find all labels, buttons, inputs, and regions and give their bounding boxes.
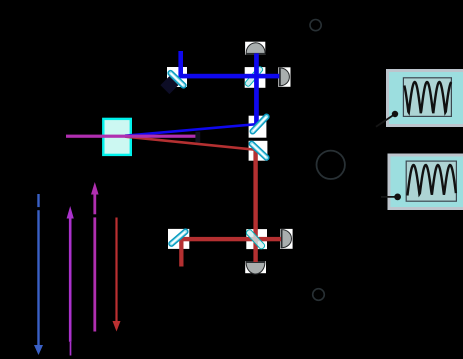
mirror M1 mount (top-left) [167,67,187,87]
beam red diagonal crystal to D2 [125,137,258,150]
mirror M1 substrate diamond [160,76,178,94]
photodiode PD4 mount (below BS2) [245,261,266,273]
photodiode PD2 dome [279,68,289,86]
beamsplitter BS2 mount [246,229,267,249]
dichroic D1 bar [249,113,270,134]
beam blue horizontal M1 to PD2 [179,74,279,79]
photodiode PD4 dome [246,262,265,274]
dichroic D2 mount [249,141,268,161]
beam dump [195,132,200,143]
beam red horizontal M2 to PD3 [180,237,281,241]
mirror M2 mount (bottom-left) [168,229,189,249]
mirror M2 bar [168,228,189,247]
beam red vertical below M2 [179,240,183,267]
photodiode PD2 mount (right of BS1) [278,67,290,87]
photodiode PD3 mount (right of BS2) [280,229,293,249]
legend arrow blue (down) [34,194,43,355]
dichroic D2 bar [248,140,269,161]
legend arrow magenta (up) [91,182,99,332]
legend arrow purple (up) [67,206,74,356]
beam blue laser vertical (top-left) [178,51,183,77]
oscilloscope 1 (top right) [376,71,463,127]
photodiode PD3 dome [281,230,291,248]
photodiode PD1 mount (above BS1) [245,42,265,55]
legend arrow red (down) [113,218,121,332]
circle omega small bottom [313,289,325,301]
beamsplitter BS1 mount [245,67,266,88]
beam blue vertical PD1-BS1-D1 [254,53,259,124]
beamsplitter BS1 plate (under beams) [244,66,263,87]
circle omega large middle [317,151,345,179]
photodiode PD1 dome [246,43,265,54]
mirror M1 coated bar [167,70,187,89]
beam magenta pump [66,135,196,138]
crystal (BBO) [103,119,131,155]
beamsplitter BS2 plate (over beams) [245,229,265,250]
beam blue diagonal crystal to D1 [125,124,258,136]
dichroic D1 mount [249,116,267,138]
oscilloscope 2 (bottom right) [381,155,463,209]
circle omega small top [310,20,321,31]
beam red vertical D2-BS2-PD4 [253,150,257,262]
